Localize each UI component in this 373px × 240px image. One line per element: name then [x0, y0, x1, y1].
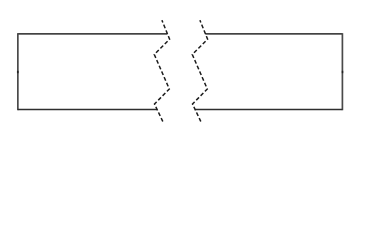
left bar bottom edge [18, 109, 157, 111]
left bar top edge [18, 33, 168, 35]
left bar left edge [17, 33, 19, 110]
right bar bottom edge [195, 109, 342, 111]
right bar top edge [205, 33, 342, 35]
right edge midpoint tick [342, 71, 344, 73]
left edge midpoint tick [17, 71, 19, 73]
break line right (dashed zigzag) [192, 20, 207, 121]
right bar right edge [341, 33, 343, 110]
break line left (dashed zigzag) [154, 20, 169, 121]
